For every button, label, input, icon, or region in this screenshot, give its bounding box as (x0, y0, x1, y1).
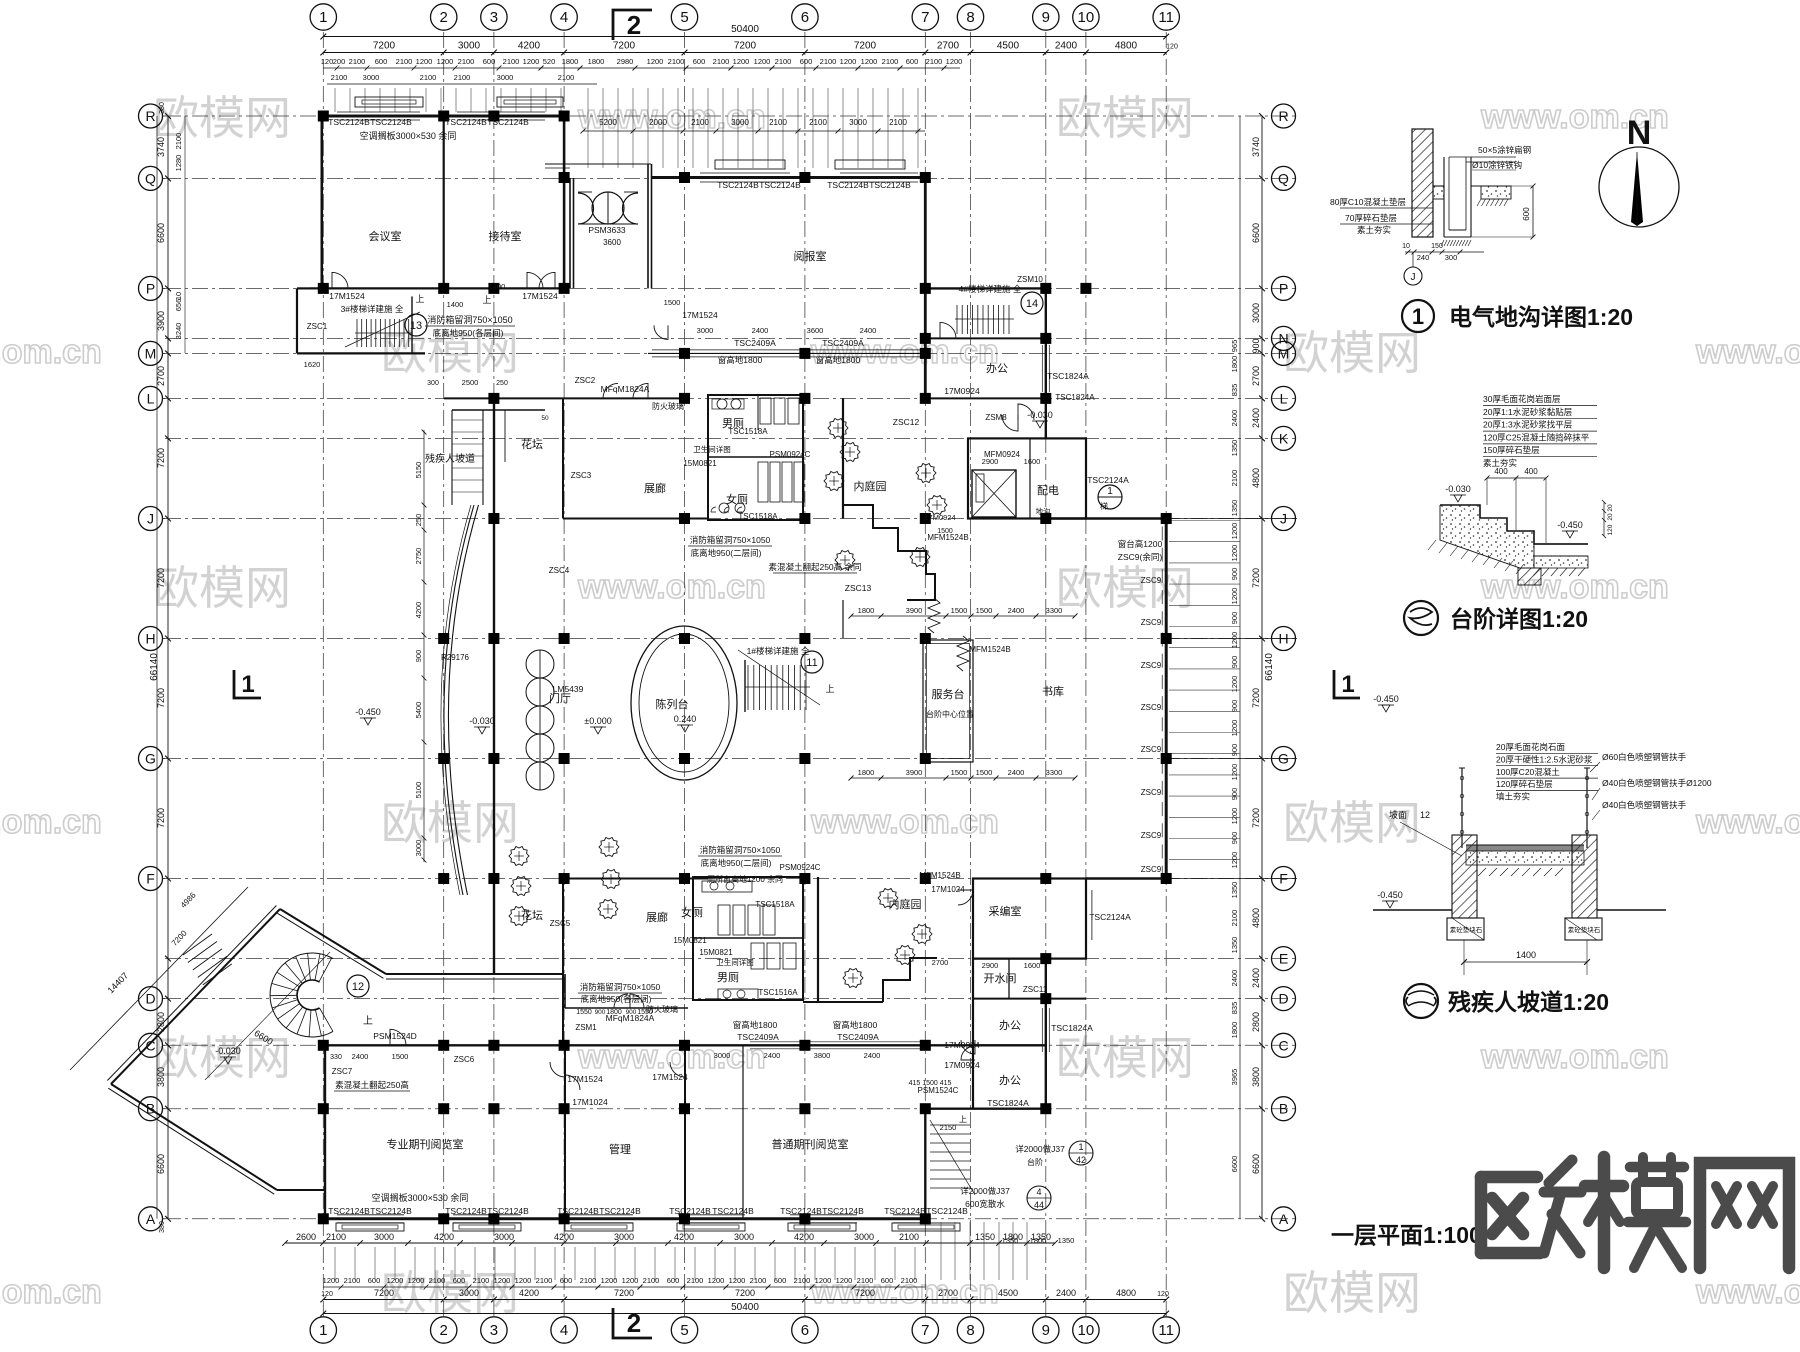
svg-text:1620: 1620 (304, 360, 321, 369)
svg-text:N: N (1627, 114, 1652, 152)
svg-text:11: 11 (806, 657, 817, 669)
svg-text:消防箱留洞750×1050: 消防箱留洞750×1050 (427, 314, 512, 325)
svg-text:380: 380 (159, 102, 166, 114)
svg-text:9: 9 (1042, 9, 1050, 26)
svg-text:17M1524: 17M1524 (652, 1072, 688, 1082)
svg-text:6600: 6600 (1230, 1156, 1239, 1173)
svg-text:1800: 1800 (858, 606, 875, 615)
svg-text:15M0821: 15M0821 (673, 936, 707, 945)
svg-text:B: B (1279, 1101, 1288, 1117)
svg-text:1800: 1800 (562, 57, 579, 66)
svg-text:1200: 1200 (622, 1276, 639, 1285)
svg-text:2980: 2980 (617, 57, 634, 66)
svg-text:M: M (1278, 345, 1290, 361)
svg-text:普通期刊阅览室: 普通期刊阅览室 (772, 1137, 849, 1151)
svg-text:-0.450: -0.450 (1373, 694, 1399, 704)
svg-text:2900: 2900 (982, 961, 999, 970)
svg-text:2100: 2100 (691, 118, 709, 127)
svg-text:2400: 2400 (1230, 410, 1239, 427)
svg-text:2100: 2100 (396, 57, 413, 66)
svg-text:520: 520 (543, 57, 556, 66)
svg-text:2700: 2700 (1251, 366, 1261, 386)
svg-text:50400: 50400 (731, 1302, 759, 1313)
svg-text:1: 1 (319, 9, 327, 26)
svg-text:R29176: R29176 (441, 653, 470, 662)
svg-text:42: 42 (1076, 1155, 1086, 1165)
svg-text:900: 900 (1230, 832, 1239, 845)
svg-text:3: 3 (490, 9, 498, 26)
svg-text:欧模网: 欧模网 (1056, 562, 1194, 614)
svg-text:4800: 4800 (1116, 1288, 1136, 1298)
svg-text:填土夯实: 填土夯实 (1496, 792, 1530, 802)
svg-text:5150: 5150 (414, 462, 423, 479)
svg-text:250: 250 (496, 380, 508, 387)
svg-text:7200: 7200 (374, 1288, 394, 1298)
svg-text:TSC1824A: TSC1824A (987, 1098, 1029, 1108)
svg-text:12: 12 (352, 981, 364, 993)
svg-text:835: 835 (1230, 1002, 1239, 1015)
svg-text:底离地950(各层间): 底离地950(各层间) (433, 328, 504, 338)
svg-text:17M1524: 17M1524 (329, 291, 365, 301)
svg-text:Ø60白色喷塑钢管扶手: Ø60白色喷塑钢管扶手 (1602, 752, 1687, 762)
svg-text:2100: 2100 (331, 73, 348, 82)
svg-text:600: 600 (881, 1276, 894, 1285)
svg-text:ZSC9: ZSC9 (1141, 745, 1162, 754)
svg-text:600: 600 (1522, 207, 1531, 221)
svg-text:2100: 2100 (899, 1232, 919, 1242)
svg-text:2100: 2100 (889, 118, 907, 127)
svg-text:1500: 1500 (392, 1052, 409, 1061)
svg-text:1200: 1200 (323, 1276, 340, 1285)
svg-text:11: 11 (1158, 9, 1174, 26)
svg-text:120厚C25混凝土随捣碎抹平: 120厚C25混凝土随捣碎抹平 (1483, 432, 1590, 442)
svg-text:详2000做J37: 详2000做J37 (1015, 1144, 1065, 1154)
svg-text:6600: 6600 (156, 223, 166, 243)
svg-text:20: 20 (1607, 504, 1614, 512)
svg-text:1400: 1400 (1516, 950, 1536, 960)
svg-text:L: L (1280, 390, 1288, 406)
svg-text:欧模网: 欧模网 (1056, 1032, 1194, 1084)
svg-text:2400: 2400 (1055, 41, 1078, 52)
svg-text:1: 1 (1107, 486, 1113, 497)
svg-text:4: 4 (1036, 1187, 1041, 1197)
svg-text:管理: 管理 (609, 1142, 631, 1156)
svg-text:1500: 1500 (664, 298, 681, 307)
svg-text:欧模网: 欧模网 (1283, 1267, 1421, 1319)
svg-text:1200: 1200 (1230, 545, 1239, 562)
svg-text:MFqM1824A: MFqM1824A (601, 384, 650, 394)
svg-text:2100: 2100 (420, 73, 437, 82)
svg-text:办公: 办公 (999, 1074, 1021, 1087)
svg-text:2700: 2700 (938, 1288, 958, 1298)
svg-text:1350: 1350 (1230, 440, 1239, 457)
svg-text:M: M (145, 345, 157, 361)
svg-text:600: 600 (483, 57, 496, 66)
svg-text:1800: 1800 (1030, 1236, 1047, 1245)
svg-text:4200: 4200 (518, 41, 541, 52)
svg-text:1200: 1200 (946, 57, 963, 66)
svg-text:2100: 2100 (809, 118, 827, 127)
svg-text:7200: 7200 (156, 808, 166, 828)
svg-text:3900: 3900 (156, 311, 166, 331)
svg-text:-0.450: -0.450 (1557, 520, 1583, 530)
svg-text:地沟: 地沟 (1036, 506, 1051, 516)
svg-text:1800: 1800 (858, 768, 875, 777)
svg-text:ZSC9: ZSC9 (1141, 865, 1162, 874)
svg-text:1200: 1200 (1230, 764, 1239, 781)
svg-text:120: 120 (321, 57, 334, 66)
svg-text:17M1024: 17M1024 (572, 1097, 608, 1107)
svg-text:3000: 3000 (854, 1232, 874, 1242)
svg-text:TSC2124B: TSC2124B (926, 1206, 968, 1216)
svg-text:2100: 2100 (349, 57, 366, 66)
svg-text:1#楼梯详建施 全: 1#楼梯详建施 全 (747, 646, 810, 656)
svg-text:5100: 5100 (414, 782, 423, 799)
svg-text:PSM1524D: PSM1524D (373, 1031, 416, 1041)
svg-text:4200: 4200 (414, 602, 423, 619)
svg-text:TSC2124B: TSC2124B (487, 117, 529, 127)
svg-text:3000: 3000 (459, 1288, 479, 1298)
svg-text:10: 10 (1402, 243, 1410, 250)
svg-text:10: 10 (1078, 1322, 1095, 1339)
svg-text:L: L (147, 390, 155, 406)
svg-text:2: 2 (440, 1322, 448, 1339)
svg-text:ZSC9: ZSC9 (1141, 576, 1162, 585)
svg-text:2700: 2700 (937, 41, 960, 52)
svg-text:-0.450: -0.450 (355, 707, 381, 717)
svg-text:TSC1516A: TSC1516A (758, 988, 798, 997)
svg-text:2400: 2400 (1008, 768, 1025, 777)
svg-text:TSC2124B: TSC2124B (328, 117, 370, 127)
svg-text:3000: 3000 (374, 1232, 394, 1242)
svg-text:www.om.cn: www.om.cn (577, 98, 766, 136)
svg-text:2: 2 (627, 1308, 641, 1338)
svg-text:2400: 2400 (752, 326, 769, 335)
svg-text:厕所窗高地1200 余同: 厕所窗高地1200 余同 (707, 874, 783, 884)
svg-text:2400: 2400 (1056, 1288, 1076, 1298)
svg-text:花坛: 花坛 (521, 909, 543, 922)
svg-text:20厚1:1水泥砂浆黏贴层: 20厚1:1水泥砂浆黏贴层 (1483, 407, 1572, 417)
svg-text:www.om.cn: www.om.cn (1695, 803, 1800, 841)
svg-text:ZSC5: ZSC5 (550, 919, 571, 928)
svg-text:4200: 4200 (674, 1232, 694, 1242)
svg-text:2600: 2600 (296, 1232, 316, 1242)
svg-text:2: 2 (440, 9, 448, 26)
svg-text:卫生间详图: 卫生间详图 (716, 957, 754, 967)
svg-text:ZSC11: ZSC11 (1023, 985, 1048, 994)
svg-text:1200: 1200 (754, 57, 771, 66)
svg-text:2400: 2400 (764, 1051, 781, 1060)
svg-text:ZSC6: ZSC6 (454, 1055, 475, 1064)
svg-text:D: D (145, 991, 155, 1007)
svg-text:400: 400 (1524, 467, 1538, 476)
svg-text:空调搁板3000×530 余同: 空调搁板3000×530 余同 (372, 1192, 469, 1203)
svg-text:1: 1 (1412, 304, 1424, 329)
svg-text:ZSC3: ZSC3 (571, 471, 592, 480)
svg-text:600: 600 (800, 57, 813, 66)
svg-text:900: 900 (1230, 788, 1239, 801)
svg-text:TSC1518A: TSC1518A (728, 427, 768, 436)
svg-text:-0.030: -0.030 (1445, 484, 1471, 494)
svg-text:C: C (1278, 1037, 1288, 1053)
svg-text:开水间: 开水间 (984, 972, 1017, 985)
svg-text:1: 1 (1341, 671, 1354, 698)
svg-text:www.om.cn: www.om.cn (1480, 568, 1669, 606)
svg-text:1550: 1550 (637, 1009, 653, 1016)
svg-text:Q: Q (145, 170, 156, 186)
svg-text:1400: 1400 (489, 282, 506, 291)
svg-text:一层平面1:100: 一层平面1:100 (1331, 1222, 1482, 1248)
svg-text:600: 600 (453, 1276, 466, 1285)
svg-text:ZSC2: ZSC2 (575, 376, 596, 385)
svg-text:600: 600 (560, 1276, 573, 1285)
svg-text:台阶详图1:20: 台阶详图1:20 (1450, 606, 1588, 632)
svg-text:3000: 3000 (497, 73, 514, 82)
svg-text:专业期刊阅览室: 专业期刊阅览室 (387, 1137, 464, 1151)
svg-text:900: 900 (1230, 700, 1239, 713)
svg-text:4800: 4800 (1251, 908, 1261, 928)
svg-text:上: 上 (959, 1115, 967, 1124)
svg-text:7200: 7200 (855, 1288, 875, 1298)
svg-text:7200: 7200 (156, 568, 166, 588)
svg-text:1: 1 (319, 1322, 327, 1339)
svg-text:3: 3 (490, 1322, 498, 1339)
svg-text:www.om.cn: www.om.cn (577, 568, 766, 606)
svg-text:PSM1524C: PSM1524C (918, 1086, 959, 1095)
svg-text:600宽散水: 600宽散水 (965, 1199, 1005, 1209)
svg-text:7200: 7200 (735, 1288, 755, 1298)
svg-text:欧模网: 欧模网 (1283, 797, 1421, 849)
svg-text:TSC1518A: TSC1518A (738, 512, 778, 521)
svg-text:50400: 50400 (731, 24, 759, 35)
svg-text:20厚干硬性1:2.5水泥砂浆: 20厚干硬性1:2.5水泥砂浆 (1496, 754, 1593, 764)
svg-text:1600: 1600 (1024, 457, 1041, 466)
svg-text:3000: 3000 (414, 840, 423, 857)
svg-text:1350: 1350 (1230, 500, 1239, 517)
svg-text:1200: 1200 (708, 1276, 725, 1285)
svg-text:上: 上 (415, 294, 424, 304)
svg-text:150厚碎石垫层: 150厚碎石垫层 (1483, 445, 1540, 455)
svg-text:7200: 7200 (1251, 568, 1261, 588)
svg-text:素土夯实: 素土夯实 (1357, 225, 1391, 235)
svg-text:4#楼梯详建施 全: 4#楼梯详建施 全 (959, 284, 1022, 294)
svg-text:办公: 办公 (986, 362, 1008, 375)
svg-text:2150: 2150 (940, 1123, 957, 1132)
svg-text:100厚C20混凝土: 100厚C20混凝土 (1496, 767, 1560, 777)
svg-text:415 1500 415: 415 1500 415 (909, 1080, 952, 1087)
svg-text:消防箱留洞750×1050: 消防箱留洞750×1050 (580, 982, 661, 992)
svg-text:1200: 1200 (416, 57, 433, 66)
svg-text:上: 上 (363, 1015, 373, 1027)
svg-text:4800: 4800 (1251, 468, 1261, 488)
svg-text:2100: 2100 (857, 1276, 874, 1285)
svg-text:www.om.cn: www.om.cn (1480, 1038, 1669, 1076)
svg-text:50×5涂锌扁钢: 50×5涂锌扁钢 (1478, 145, 1531, 155)
svg-text:9: 9 (1042, 1322, 1050, 1339)
svg-text:±0.000: ±0.000 (584, 716, 611, 726)
svg-text:7: 7 (921, 9, 929, 26)
svg-text:1200: 1200 (1230, 632, 1239, 649)
svg-text:3900: 3900 (906, 606, 923, 615)
svg-text:15M0821: 15M0821 (699, 948, 733, 957)
svg-text:120: 120 (321, 1291, 333, 1298)
svg-text:消防箱留洞750×1050: 消防箱留洞750×1050 (700, 845, 781, 855)
svg-text:11: 11 (1158, 1322, 1174, 1339)
svg-text:TSC2124A: TSC2124A (1087, 475, 1129, 485)
svg-text:PSM0924C: PSM0924C (780, 863, 821, 872)
svg-text:残疾人坡道: 残疾人坡道 (425, 452, 475, 465)
svg-text:17M1024: 17M1024 (931, 885, 965, 894)
svg-text:3740: 3740 (1251, 137, 1261, 157)
svg-text:TSC1518A: TSC1518A (755, 900, 795, 909)
svg-text:K: K (1279, 430, 1289, 446)
svg-text:1350: 1350 (1058, 1236, 1075, 1245)
svg-text:2700: 2700 (932, 958, 949, 967)
svg-text:13: 13 (410, 320, 422, 332)
svg-text:300: 300 (427, 380, 439, 387)
svg-text:A: A (1279, 1211, 1289, 1227)
svg-text:4: 4 (560, 1322, 568, 1339)
svg-text:2100: 2100 (580, 1276, 597, 1285)
svg-text:Ø40白色喷塑钢管扶手Ø1200: Ø40白色喷塑钢管扶手Ø1200 (1602, 778, 1712, 788)
svg-text:3000: 3000 (458, 41, 481, 52)
svg-text:欧模网: 欧模网 (381, 1267, 519, 1319)
svg-text:1500: 1500 (976, 606, 993, 615)
svg-text:3240: 3240 (174, 323, 183, 340)
svg-text:2100: 2100 (820, 57, 837, 66)
svg-text:600: 600 (375, 57, 388, 66)
svg-text:2400: 2400 (1008, 606, 1025, 615)
svg-text:采编室: 采编室 (989, 904, 1022, 918)
svg-text:80厚C10混凝土垫层: 80厚C10混凝土垫层 (1330, 197, 1406, 207)
svg-text:2000: 2000 (649, 118, 667, 127)
svg-text:2400: 2400 (352, 1052, 369, 1061)
svg-text:2750: 2750 (414, 548, 423, 565)
svg-text:17M1524: 17M1524 (522, 291, 558, 301)
svg-text:ZSM10: ZSM10 (1017, 275, 1043, 284)
svg-text:20: 20 (1607, 513, 1614, 521)
svg-text:2100: 2100 (882, 57, 899, 66)
svg-text:2: 2 (627, 10, 641, 40)
svg-text:70厚碎石垫层: 70厚碎石垫层 (1345, 213, 1397, 223)
svg-text:150: 150 (1431, 243, 1443, 250)
svg-text:17M0924: 17M0924 (944, 1060, 980, 1070)
svg-text:7200: 7200 (1251, 808, 1261, 828)
svg-text:MFM1524B: MFM1524B (919, 871, 960, 880)
svg-text:1800: 1800 (1230, 1022, 1239, 1039)
svg-text:上: 上 (482, 295, 491, 305)
svg-text:200: 200 (333, 57, 346, 66)
svg-text:TSC2124B: TSC2124B (717, 180, 759, 190)
svg-text:3000: 3000 (494, 1232, 514, 1242)
svg-text:6: 6 (801, 9, 809, 26)
svg-text:1500: 1500 (976, 768, 993, 777)
svg-text:3#楼梯详建施 全: 3#楼梯详建施 全 (341, 304, 404, 314)
svg-text:1200: 1200 (494, 1276, 511, 1285)
svg-text:ZSC9(余同): ZSC9(余同) (1118, 552, 1163, 562)
svg-text:1200: 1200 (1230, 523, 1239, 540)
svg-text:窗高地1800: 窗高地1800 (833, 1020, 878, 1030)
svg-text:2800: 2800 (1251, 1012, 1261, 1032)
svg-text:P: P (1279, 280, 1288, 296)
svg-text:2400: 2400 (864, 1051, 881, 1060)
svg-text:MFM1524B: MFM1524B (969, 645, 1010, 654)
svg-text:2100: 2100 (643, 1276, 660, 1285)
svg-text:PSM3633: PSM3633 (588, 225, 626, 235)
svg-text:Q: Q (1278, 170, 1289, 186)
svg-text:卫生间详图: 卫生间详图 (693, 444, 731, 454)
svg-text:12: 12 (1420, 810, 1430, 820)
svg-text:600: 600 (906, 57, 919, 66)
svg-text:50: 50 (541, 415, 549, 422)
svg-text:3000: 3000 (731, 118, 749, 127)
svg-text:PSM0924C: PSM0924C (770, 450, 811, 459)
svg-text:900: 900 (1230, 612, 1239, 625)
svg-text:ZSM1: ZSM1 (575, 1023, 597, 1032)
svg-text:素混凝土翻起250高: 素混凝土翻起250高 (335, 1080, 409, 1090)
svg-text:1200: 1200 (515, 1276, 532, 1285)
svg-text:内庭园: 内庭园 (854, 479, 887, 493)
svg-text:J: J (1411, 272, 1416, 283)
svg-text:17M0924: 17M0924 (944, 386, 980, 396)
svg-text:素砼垫块石: 素砼垫块石 (1450, 925, 1483, 934)
svg-text:ZSC1: ZSC1 (307, 322, 328, 331)
svg-text:1350: 1350 (1230, 937, 1239, 954)
svg-text:2100: 2100 (668, 57, 685, 66)
svg-text:ZSC9: ZSC9 (1141, 618, 1162, 627)
svg-text:2100: 2100 (926, 57, 943, 66)
svg-text:900: 900 (595, 1009, 606, 1016)
svg-text:G: G (145, 751, 156, 767)
svg-text:配电: 配电 (1037, 484, 1059, 497)
svg-text:66140: 66140 (149, 653, 160, 681)
svg-text:7200: 7200 (156, 688, 166, 708)
svg-text:4800: 4800 (1115, 41, 1138, 52)
svg-text:2900: 2900 (982, 457, 999, 466)
svg-text:陈列台: 陈列台 (656, 697, 689, 711)
svg-text:7200: 7200 (854, 41, 877, 52)
svg-text:1200: 1200 (1230, 808, 1239, 825)
svg-text:7: 7 (921, 1322, 929, 1339)
svg-text:素混凝土翻起250高 余同: 素混凝土翻起250高 余同 (768, 562, 861, 572)
svg-text:ZSC9: ZSC9 (1141, 788, 1162, 797)
svg-text:7200: 7200 (613, 41, 636, 52)
svg-text:空调搁板3000×530 余同: 空调搁板3000×530 余同 (360, 130, 457, 141)
svg-text:欧模网: 欧模网 (1283, 327, 1421, 379)
svg-text:600: 600 (667, 1276, 680, 1285)
svg-text:1200: 1200 (523, 57, 540, 66)
svg-text:10: 10 (1078, 9, 1095, 26)
svg-text:1200: 1200 (437, 57, 454, 66)
svg-text:Ø40白色喷塑钢管扶手: Ø40白色喷塑钢管扶手 (1602, 800, 1687, 810)
svg-text:TSC2409A: TSC2409A (837, 1032, 879, 1042)
svg-text:600: 600 (774, 1276, 787, 1285)
svg-text:女厕: 女厕 (726, 492, 748, 506)
svg-text:www.om.cn: www.om.cn (1695, 333, 1800, 371)
svg-text:380: 380 (159, 1221, 166, 1233)
svg-text:-0.450: -0.450 (1377, 890, 1403, 900)
svg-text:4500: 4500 (998, 1288, 1018, 1298)
svg-text:3600: 3600 (807, 326, 824, 335)
svg-text:965: 965 (1230, 340, 1239, 353)
svg-text:LM5439: LM5439 (553, 684, 584, 694)
svg-text:3000: 3000 (614, 1232, 634, 1242)
svg-text:900: 900 (1230, 656, 1239, 669)
svg-text:TSC2124B: TSC2124B (759, 180, 801, 190)
svg-text:详2000做J37: 详2000做J37 (960, 1186, 1010, 1196)
svg-text:TSC2409A: TSC2409A (822, 338, 864, 348)
svg-text:17M0924: 17M0924 (944, 1040, 980, 1050)
